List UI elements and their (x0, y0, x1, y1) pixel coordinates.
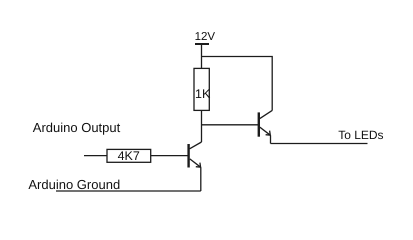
svg-text:12V: 12V (195, 31, 216, 43)
svg-text:1K: 1K (195, 87, 211, 101)
svg-text:To LEDs: To LEDs (338, 128, 383, 142)
svg-text:4K7: 4K7 (118, 149, 140, 163)
svg-text:Arduino Output: Arduino Output (33, 120, 121, 135)
svg-text:Arduino Ground: Arduino Ground (28, 177, 120, 192)
